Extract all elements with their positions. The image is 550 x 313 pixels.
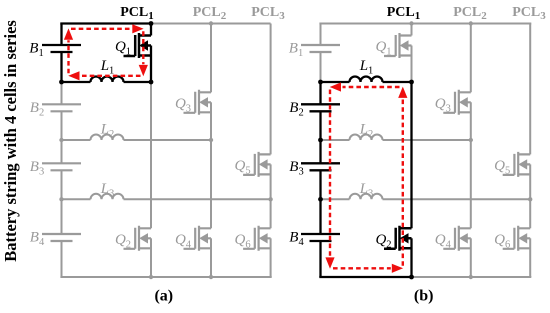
junction (b) L1-PCL1 node	[409, 80, 414, 85]
inductor L1 (b) coil	[350, 77, 383, 83]
junction (b) bottom PCL2 node	[469, 275, 473, 279]
junction (b) L2 left node	[318, 138, 323, 143]
junction (a) L2 left node	[59, 138, 63, 142]
wire: red current path (a) left edge	[67, 40, 69, 73]
wire (b) top rail	[319, 23, 531, 25]
wire (b) bottom rail inactive part	[412, 276, 532, 278]
battery B2 (a)	[42, 104, 81, 111]
wire (b) PCL2 rail Q3 source to Q4 drain	[470, 102, 472, 228]
wire: red current path (a) right edge	[142, 31, 144, 64]
svg-text:(b): (b)	[414, 288, 434, 305]
wire (a) PCL1 rail node to Q2 drain	[150, 82, 152, 228]
arrowhead: current direction right (a)	[132, 24, 143, 33]
battery B4 (a)	[42, 234, 81, 241]
wire (b) battery-string rail L1 node to B2	[319, 82, 321, 104]
wire (a) PCL3 rail top to Q5 drain	[270, 24, 272, 155]
transistor Q6 (b)	[503, 226, 531, 251]
junction (a) L1 left node	[59, 80, 64, 85]
battery B2 (b)	[301, 104, 340, 111]
wire (a) top rail PCL1-PCL3 (inactive)	[151, 23, 271, 25]
wire (a) PCL3 rail Q5 source to Q6 drain	[270, 164, 272, 228]
wire (a) PCL2 rail Q3 source to Q4 drain	[210, 102, 212, 228]
wire: red current path (b) bottom edge	[333, 267, 391, 269]
transistor Q1 (a)	[124, 33, 152, 58]
inductor L3 (a) coil	[91, 194, 124, 199]
wire (b) PCL1 rail L1 node to Q2 drain	[410, 82, 412, 228]
wire (b) PCL2 rail Q4 source to bottom	[470, 238, 472, 277]
arrowhead: current direction down (b)	[325, 257, 334, 268]
transistor Q4 (b)	[443, 226, 471, 251]
inductor L2 (a) coil	[91, 135, 124, 141]
wire (b) battery-string rail top to B1	[320, 24, 322, 46]
wire (a) PCL2 rail Q4 source to bottom	[210, 238, 212, 277]
wire (b) PCL3 rail Q6 source to bottom	[529, 238, 531, 277]
wire (b) battery-string rail B1 to L1 node	[320, 52, 322, 82]
wire (b) L3 wire to PCL3	[321, 198, 531, 200]
wire (a) battery-string rail B1 to L1 node	[60, 52, 62, 82]
transistor Q5 (b)	[503, 152, 531, 177]
arrowhead: current direction up (a)	[64, 28, 73, 39]
arrowhead: current direction down (a)	[139, 65, 148, 76]
junction (b) L3 left node	[318, 197, 323, 202]
wire (b) PCL2 rail top to Q3 drain	[470, 24, 472, 93]
wire (b) battery-string rail B2 to L2 node	[319, 111, 321, 140]
wire (a) PCL1 rail Q2 source to bottom	[150, 238, 152, 277]
wire: red current path (b) top edge	[343, 86, 400, 88]
wire: red current path (b) left edge	[329, 90, 331, 257]
transistor Q2 (b)	[384, 226, 412, 251]
wire: red current path (a) top edge	[71, 28, 132, 30]
junction (a) PCL1 top node	[149, 21, 154, 26]
junction (a) bottom PCL2 node	[209, 275, 213, 279]
wire (b) PCL3 rail top to Q5 drain	[529, 24, 531, 155]
inductor L1 (a) coil	[91, 77, 124, 83]
transistor Q2 (a)	[124, 226, 152, 251]
inductor L2 (b) coil	[350, 135, 383, 141]
junction (a) L3-PCL3 node	[268, 197, 272, 201]
svg-text:Battery string with 4 cells in: Battery string with 4 cells in series	[1, 20, 20, 262]
wire (b) battery-string rail L2 node to B3	[319, 140, 321, 163]
wire (b) battery-string rail L3 node to B4	[319, 199, 321, 234]
wire (a) battery-string rail top to B1	[60, 24, 62, 46]
junction (a) PCL2 top node	[209, 21, 213, 25]
wire (a) bottom rail	[60, 276, 271, 278]
wire (b) PCL1 rail top to Q1 drain	[411, 24, 413, 36]
arrowhead: current direction up (b)	[398, 87, 407, 98]
wire (b) L2 wire to PCL2	[321, 139, 471, 141]
wire (a) battery-string rail below node to B2	[61, 82, 63, 104]
transistor Q6 (a)	[243, 226, 271, 251]
wire (a) battery-string rail L3 node to B4	[61, 199, 63, 234]
wire (a) L1 wire to PCL1	[62, 81, 152, 83]
wire (b) L1 wire to PCL1	[321, 81, 412, 83]
junction (b) L1 left node	[318, 80, 323, 85]
battery B3 (a)	[42, 163, 81, 170]
transistor Q5 (a)	[243, 152, 271, 177]
wire (a) L3 wire to PCL3	[62, 198, 271, 200]
wire (b) bottom rail active part	[319, 276, 411, 278]
arrowhead: current direction left (a)	[68, 71, 79, 80]
junction (a) bottom PCL1 node	[149, 275, 153, 279]
battery B4 (b)	[301, 234, 340, 241]
wire (b) battery-string rail B4 to bottom rail	[319, 241, 321, 277]
junction (a) L1-PCL1 node	[149, 80, 154, 85]
wire (a) PCL3 rail Q6 source to bottom	[270, 238, 272, 277]
junction (b) PCL2 top node	[469, 21, 473, 25]
arrowhead: current direction right (b)	[392, 264, 403, 273]
wire (a) battery-string rail B4 to bottom rail	[61, 241, 63, 277]
arrowhead: current direction left (b)	[330, 82, 341, 91]
battery B1 (a)	[42, 45, 81, 52]
transistor Q4 (a)	[184, 226, 212, 251]
wire (a) battery-string rail B3 to L3 node	[61, 170, 63, 199]
wire (a) PCL1 rail top node to Q1 drain	[150, 24, 152, 36]
svg-text:(a): (a)	[154, 288, 173, 305]
junction (a) L3 left node	[59, 197, 63, 201]
wire (a) PCL1 rail Q1 source to L1 node	[150, 46, 152, 83]
battery B1 (b)	[301, 45, 340, 52]
junction (a) L2-PCL2 node	[209, 138, 213, 142]
wire (a) L2 wire to PCL2	[62, 139, 212, 141]
wire (b) PCL1 rail Q1 source to L1 node	[411, 46, 413, 83]
junction (b) L3-PCL3 node	[528, 197, 532, 201]
wire (a) top rail active	[60, 22, 151, 24]
inductor L3 (b) coil	[350, 194, 383, 199]
junction (b) L2-PCL2 node	[469, 138, 473, 142]
wire (a) PCL2 rail top to Q3 drain	[210, 24, 212, 93]
transistor Q1 (b)	[384, 33, 412, 58]
junction (b) PCL1 top node	[409, 21, 413, 25]
wire (b) PCL1 rail Q2 source to bottom	[410, 238, 412, 277]
battery B3 (b)	[301, 163, 340, 170]
transistor Q3 (b)	[443, 90, 471, 115]
wire: red current path (a) bottom edge	[81, 75, 141, 77]
wire (b) PCL3 rail Q5 source to Q6 drain	[529, 164, 531, 228]
junction (b) bottom PCL1 node	[409, 275, 414, 280]
transistor Q3 (a)	[184, 90, 212, 115]
wire (b) battery-string rail B3 to L3 node	[319, 170, 321, 199]
wire (a) battery-string rail L2 node to B3	[61, 140, 63, 163]
wire: red current path (b) right edge	[402, 99, 404, 266]
wire (a) battery-string rail B2 to L2 node	[61, 111, 63, 140]
